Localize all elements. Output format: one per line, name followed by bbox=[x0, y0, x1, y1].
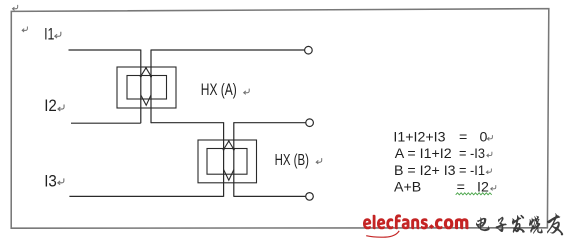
label I2 bbox=[44, 97, 57, 115]
svg-text:HX (A): HX (A) bbox=[201, 81, 237, 99]
terminal 1 bbox=[305, 46, 313, 54]
svg-text:= -I3: = -I3 bbox=[459, 146, 485, 162]
wire I2 left segment bbox=[71, 122, 141, 124]
current transformer HX(B) bbox=[198, 140, 257, 183]
wire primary rise B right bbox=[233, 122, 235, 197]
svg-text:= -I1: = -I1 bbox=[459, 163, 485, 179]
line-break mark after I1 bbox=[55, 32, 61, 38]
equation line 4 bbox=[394, 180, 489, 196]
line-break mark after equation 4 bbox=[491, 185, 496, 190]
terminal 3 bbox=[306, 193, 314, 201]
wire I2 middle segment bbox=[151, 122, 224, 124]
wire primary drop A left bbox=[140, 50, 142, 124]
current transformer HX(A) bbox=[117, 67, 176, 108]
wire primary drop B left bbox=[223, 122, 225, 197]
label HX (B) bbox=[275, 152, 309, 169]
wire I1 right segment to terminal 1 bbox=[151, 49, 304, 51]
line-break mark after I3 bbox=[58, 178, 64, 184]
wire I3 left segment bbox=[69, 195, 223, 197]
svg-text:=: = bbox=[459, 130, 467, 146]
wire I1 left segment bbox=[69, 49, 141, 51]
line-break mark after equation 3 bbox=[486, 168, 491, 173]
svg-text:I3: I3 bbox=[44, 172, 57, 190]
wire primary rise A right bbox=[150, 50, 152, 124]
watermark logo "elecfans.com" bbox=[363, 214, 468, 237]
svg-text:HX (B): HX (B) bbox=[275, 152, 309, 169]
line-break mark after HX (A) bbox=[244, 89, 250, 95]
svg-text:I2: I2 bbox=[44, 97, 57, 115]
svg-text:A+B: A+B bbox=[394, 180, 421, 196]
equation line 1 bbox=[393, 130, 487, 146]
svg-text:I1: I1 bbox=[44, 26, 54, 44]
svg-text:0: 0 bbox=[480, 130, 488, 146]
watermark chinese characters bbox=[476, 213, 563, 235]
line-break mark after equation 1 bbox=[487, 135, 492, 140]
terminal 2 bbox=[306, 119, 314, 127]
equation line 2 bbox=[395, 146, 485, 162]
line-break mark below anchor bbox=[22, 26, 27, 32]
wire I2 right segment to terminal 2 bbox=[234, 122, 306, 124]
svg-text:I1+I2+I3: I1+I2+I3 bbox=[393, 130, 445, 146]
label I3 bbox=[44, 172, 57, 190]
grammar-check squiggle under "= I2" bbox=[456, 193, 492, 195]
line-break mark at canvas anchor bbox=[12, 5, 17, 11]
wire I3 right segment to terminal 3 bbox=[234, 195, 306, 197]
label HX (A) bbox=[201, 81, 237, 99]
line-break mark after equation 2 bbox=[487, 152, 492, 157]
label I1 bbox=[44, 26, 54, 44]
line-break mark after HX (B) bbox=[316, 158, 322, 164]
svg-text:B = I2+ I3: B = I2+ I3 bbox=[394, 163, 456, 179]
line-break mark after I2 bbox=[58, 105, 64, 111]
equation line 3 bbox=[394, 163, 485, 179]
svg-text:A = I1+I2: A = I1+I2 bbox=[395, 146, 452, 162]
